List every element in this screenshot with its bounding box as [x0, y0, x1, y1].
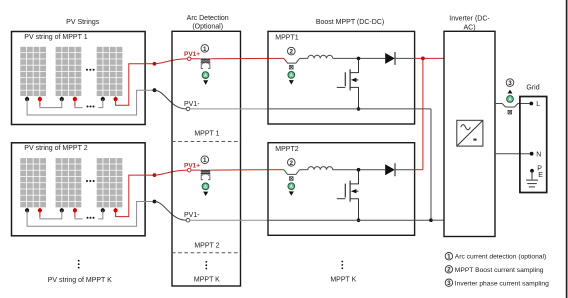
wire: panel1 positive to panel2 negative: [39, 210, 41, 217]
svg-text:3: 3: [447, 280, 451, 287]
wire: panel1 negative return: [27, 90, 154, 115]
wire: panel1 negative return: [27, 202, 154, 227]
panel3 negative terminal: [102, 208, 104, 211]
svg-text:MPPT1: MPPT1: [275, 35, 298, 42]
sensor indicator B1 (green): [288, 72, 295, 79]
svg-text:MPPT K: MPPT K: [330, 276, 356, 283]
PV panel 1: [20, 47, 46, 96]
grid box: [520, 97, 547, 193]
gate plate: [344, 184, 346, 198]
svg-text:N: N: [536, 151, 541, 158]
panel1 positive terminal: [39, 208, 41, 211]
wire: ellipsis to panel3 negative: [98, 210, 103, 219]
svg-text:PV1+: PV1+: [184, 51, 200, 58]
arc sensor indicator CH2 (green): [202, 183, 209, 190]
svg-text:L: L: [536, 101, 540, 108]
drain lead: [350, 170, 358, 184]
svg-text:2: 2: [447, 267, 451, 274]
callout 2: MPPT boost current sampling: [288, 47, 296, 55]
node: source to rail B1: [357, 107, 361, 111]
shunt sensor box AC: [508, 110, 512, 114]
svg-text:1: 1: [203, 157, 207, 164]
svg-text:Inverter (DC-: Inverter (DC-: [449, 15, 490, 22]
terminal PE: [530, 169, 534, 173]
source lead: [350, 199, 358, 221]
wire: inverter L output with shunt dip: [495, 104, 529, 108]
arc detection channel 1: [172, 45, 268, 142]
node: switch junction B1: [357, 57, 361, 61]
gate plate: [344, 72, 346, 86]
svg-text:MPPT Boost current sampling: MPPT Boost current sampling: [455, 267, 544, 274]
boost converter MPPT2 box: [268, 143, 415, 236]
page right border: [566, 0, 568, 298]
ground (protective earth): [526, 171, 538, 187]
svg-text:PV Strings: PV Strings: [66, 19, 100, 26]
legend item 3: inverter phase current sampling: [445, 279, 549, 287]
wire PV2+ to arc sensor: [191, 169, 201, 171]
node: source to rail B2: [357, 218, 361, 222]
wire: panel3 positive up to string + output: [116, 175, 155, 217]
svg-text:Grid: Grid: [526, 84, 539, 91]
PV panel 2: [56, 47, 82, 96]
arc sensor indicator CH1 (green): [202, 72, 209, 79]
svg-text:2: 2: [290, 160, 294, 167]
panel1 negative terminal: [26, 208, 28, 211]
svg-text:MPPT 1: MPPT 1: [194, 130, 219, 137]
wire: ellipsis to panel3 negative: [98, 99, 103, 108]
node: string2 + junction: [153, 173, 157, 177]
wire: DC bus + vertical: [422, 58, 424, 169]
wire PV1+ to arc sensor: [191, 58, 201, 60]
gate lead: [337, 198, 346, 200]
sensor output arrow B2: [289, 191, 294, 195]
wire: dip to inductor B1: [300, 57, 308, 59]
PV string of MPPT 1 box: [12, 32, 146, 125]
dashed divider 2: [172, 252, 241, 254]
panel1 negative terminal: [26, 97, 28, 100]
arc sensor coil element CH2: [201, 170, 211, 174]
svg-text:1: 1: [203, 46, 207, 53]
drain lead: [350, 58, 358, 72]
panel2 positive terminal: [74, 97, 76, 100]
svg-text:MPPT K: MPPT K: [194, 276, 220, 283]
sensor indicator B2 (green): [288, 183, 295, 190]
PV panel 3: [97, 158, 123, 207]
svg-text:Arc Detection: Arc Detection: [187, 15, 229, 22]
svg-text:(Optional): (Optional): [192, 24, 223, 31]
node: string2 - junction: [153, 200, 157, 204]
legend item 1: arc current detection: [445, 253, 546, 261]
svg-text:3: 3: [508, 80, 512, 87]
current shunt dip B2: [284, 170, 300, 175]
PV panel 1: [20, 158, 46, 207]
wire: negative rail through box B2: [268, 219, 431, 221]
wire: panel2 positive toward ellipsis: [74, 99, 76, 106]
panel3 positive terminal: [115, 97, 117, 100]
shunt sensor box B2: [290, 177, 294, 181]
arc sensor core bracket CH2: [201, 175, 210, 180]
terminal PV1- (open circle): [186, 107, 190, 111]
inductor L2: [308, 167, 333, 170]
svg-text:E: E: [538, 172, 543, 179]
svg-text:PV1-: PV1-: [184, 101, 200, 108]
sensor indicator AC (green): [507, 96, 514, 103]
arc sensor coil element CH1: [201, 59, 211, 63]
inverter box: [444, 31, 495, 236]
svg-text:PV string of MPPT 1: PV string of MPPT 1: [24, 34, 87, 41]
callout 1: arc current detection: [201, 45, 209, 53]
wire PV1- to boost box CH1: [190, 108, 268, 110]
ellipsis between panels: [86, 180, 95, 182]
MOSFET body arrow Q2: [351, 189, 357, 193]
wire: boost2 output red to bus: [415, 169, 423, 171]
wire: boost input (red): [268, 57, 284, 59]
node: switch junction B2: [357, 168, 361, 172]
MOSFET Q2: [337, 170, 359, 221]
arc sensor core bracket CH1: [201, 64, 210, 69]
wire: negative rail through box B1: [268, 108, 431, 110]
svg-text:2: 2: [290, 49, 294, 56]
boost converter MPPT1 box: [268, 31, 415, 124]
wire ellipsis: [87, 217, 95, 219]
shunt sensor box B1: [290, 65, 294, 69]
wire: boost1 output red to DC bus: [415, 57, 444, 59]
wire: diode to box edge B1: [395, 57, 415, 59]
arc detection channel 2: [172, 156, 268, 253]
wire: inverter N output: [495, 153, 530, 155]
current shunt dip B1: [284, 58, 300, 63]
wire: junction to PV1+ terminal: [155, 59, 188, 64]
callout 3: inverter phase current sampling: [506, 79, 514, 87]
sensor output arrow B1: [289, 80, 294, 84]
wire arc sensor to boost input CH2: [211, 169, 268, 171]
PV string of MPPT 2 box: [12, 143, 146, 236]
diode D1: [385, 53, 395, 64]
svg-text:Boost MPPT (DC-DC): Boost MPPT (DC-DC): [316, 19, 384, 26]
gate lead: [337, 86, 346, 88]
wire: panel2 positive toward ellipsis: [74, 210, 76, 217]
wire: inductor to diode B1: [333, 57, 386, 59]
node: string1 + junction: [153, 62, 157, 66]
callout 2: MPPT boost current sampling (ch2): [288, 159, 296, 167]
wire PV2- to boost box CH2: [190, 219, 268, 221]
node: DC bus + junction: [421, 57, 425, 61]
terminal PV1+ (open circle): [187, 57, 191, 61]
svg-text:MPPT2: MPPT2: [275, 146, 298, 153]
legend item 2: MPPT boost current sampling: [445, 266, 544, 274]
MOSFET Q1: [337, 58, 359, 109]
wire: DC bus - vertical: [430, 109, 432, 220]
wire: inductor to diode B2: [333, 169, 386, 171]
wire: panel3 positive up to string + output: [116, 64, 155, 106]
wire: dip to inductor B2: [300, 169, 308, 171]
body lead: [356, 190, 359, 192]
ellipsis below PV strings: [78, 260, 80, 269]
svg-text:MPPT 2: MPPT 2: [194, 243, 219, 250]
terminal PV2- (open circle): [186, 218, 190, 222]
node: DC bus - junction: [429, 218, 433, 222]
wire: junction to PV1- terminal: [155, 90, 187, 109]
node: string1 - junction: [153, 88, 157, 92]
wire: junction to PV2+ terminal: [155, 170, 188, 175]
wire: panel1 positive to panel2 negative: [39, 99, 41, 106]
body lead: [356, 79, 359, 81]
wire: boost input (red) ch2: [268, 169, 284, 171]
wire ellipsis: [87, 106, 95, 108]
MOSFET body arrow Q1: [351, 78, 357, 82]
wire: diode to box edge B2: [395, 169, 415, 171]
terminal PV2+ (open circle): [187, 168, 191, 172]
panel2 negative terminal: [61, 97, 63, 100]
terminal L: [529, 102, 533, 106]
arc sensor output arrow CH2: [203, 192, 208, 196]
dashed divider 1: [172, 141, 241, 143]
svg-text:1: 1: [447, 254, 451, 261]
PV panel 2: [56, 158, 82, 207]
svg-text:PV1-: PV1-: [184, 212, 200, 219]
svg-text:PV string of MPPT K: PV string of MPPT K: [48, 277, 112, 284]
inverter U1 symbol: [457, 120, 483, 146]
callout 1: arc current detection (channel 2): [201, 156, 209, 164]
panel3 negative terminal: [102, 97, 104, 100]
svg-text:AC): AC): [463, 24, 475, 31]
arc detection box: [172, 31, 241, 286]
source lead: [350, 87, 358, 109]
panel1 positive terminal: [39, 97, 41, 100]
svg-text:Inverter phase current samplin: Inverter phase current sampling: [455, 280, 549, 287]
ellipsis inside arc detection box: [205, 261, 207, 269]
ellipsis below boost column: [341, 261, 343, 270]
diode D2: [385, 164, 395, 175]
wire: bus - to inverter: [431, 219, 444, 221]
PV panel 3: [97, 47, 123, 96]
inductor L1: [308, 55, 333, 58]
svg-text:Arc current detection (optiona: Arc current detection (optional): [455, 254, 546, 261]
channel line: [349, 181, 351, 202]
channel line: [349, 69, 351, 90]
sensor output arrow (up): [508, 90, 513, 94]
svg-text:PV1+: PV1+: [184, 162, 200, 169]
terminal N: [530, 152, 534, 156]
arc sensor output arrow CH1: [203, 80, 208, 84]
panel2 positive terminal: [74, 208, 76, 211]
wire: junction to PV2- terminal: [155, 202, 187, 221]
svg-text:PV string of MPPT 2: PV string of MPPT 2: [24, 145, 87, 152]
ellipsis between panels: [86, 69, 95, 71]
panel2 negative terminal: [61, 208, 63, 211]
wire arc sensor to boost input CH1: [211, 57, 268, 59]
panel3 positive terminal: [115, 208, 117, 211]
